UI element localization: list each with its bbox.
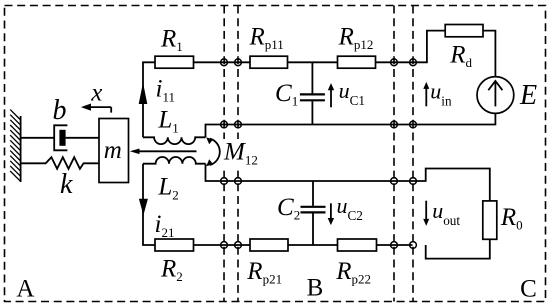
svg-text:C: C [520,276,537,303]
svg-text:E: E [519,80,537,111]
svg-text:b: b [53,95,67,126]
svg-text:B: B [307,274,324,301]
svg-text:k: k [60,169,73,200]
svg-text:m: m [104,137,122,164]
svg-text:A: A [16,276,34,303]
svg-text:x: x [90,80,102,107]
